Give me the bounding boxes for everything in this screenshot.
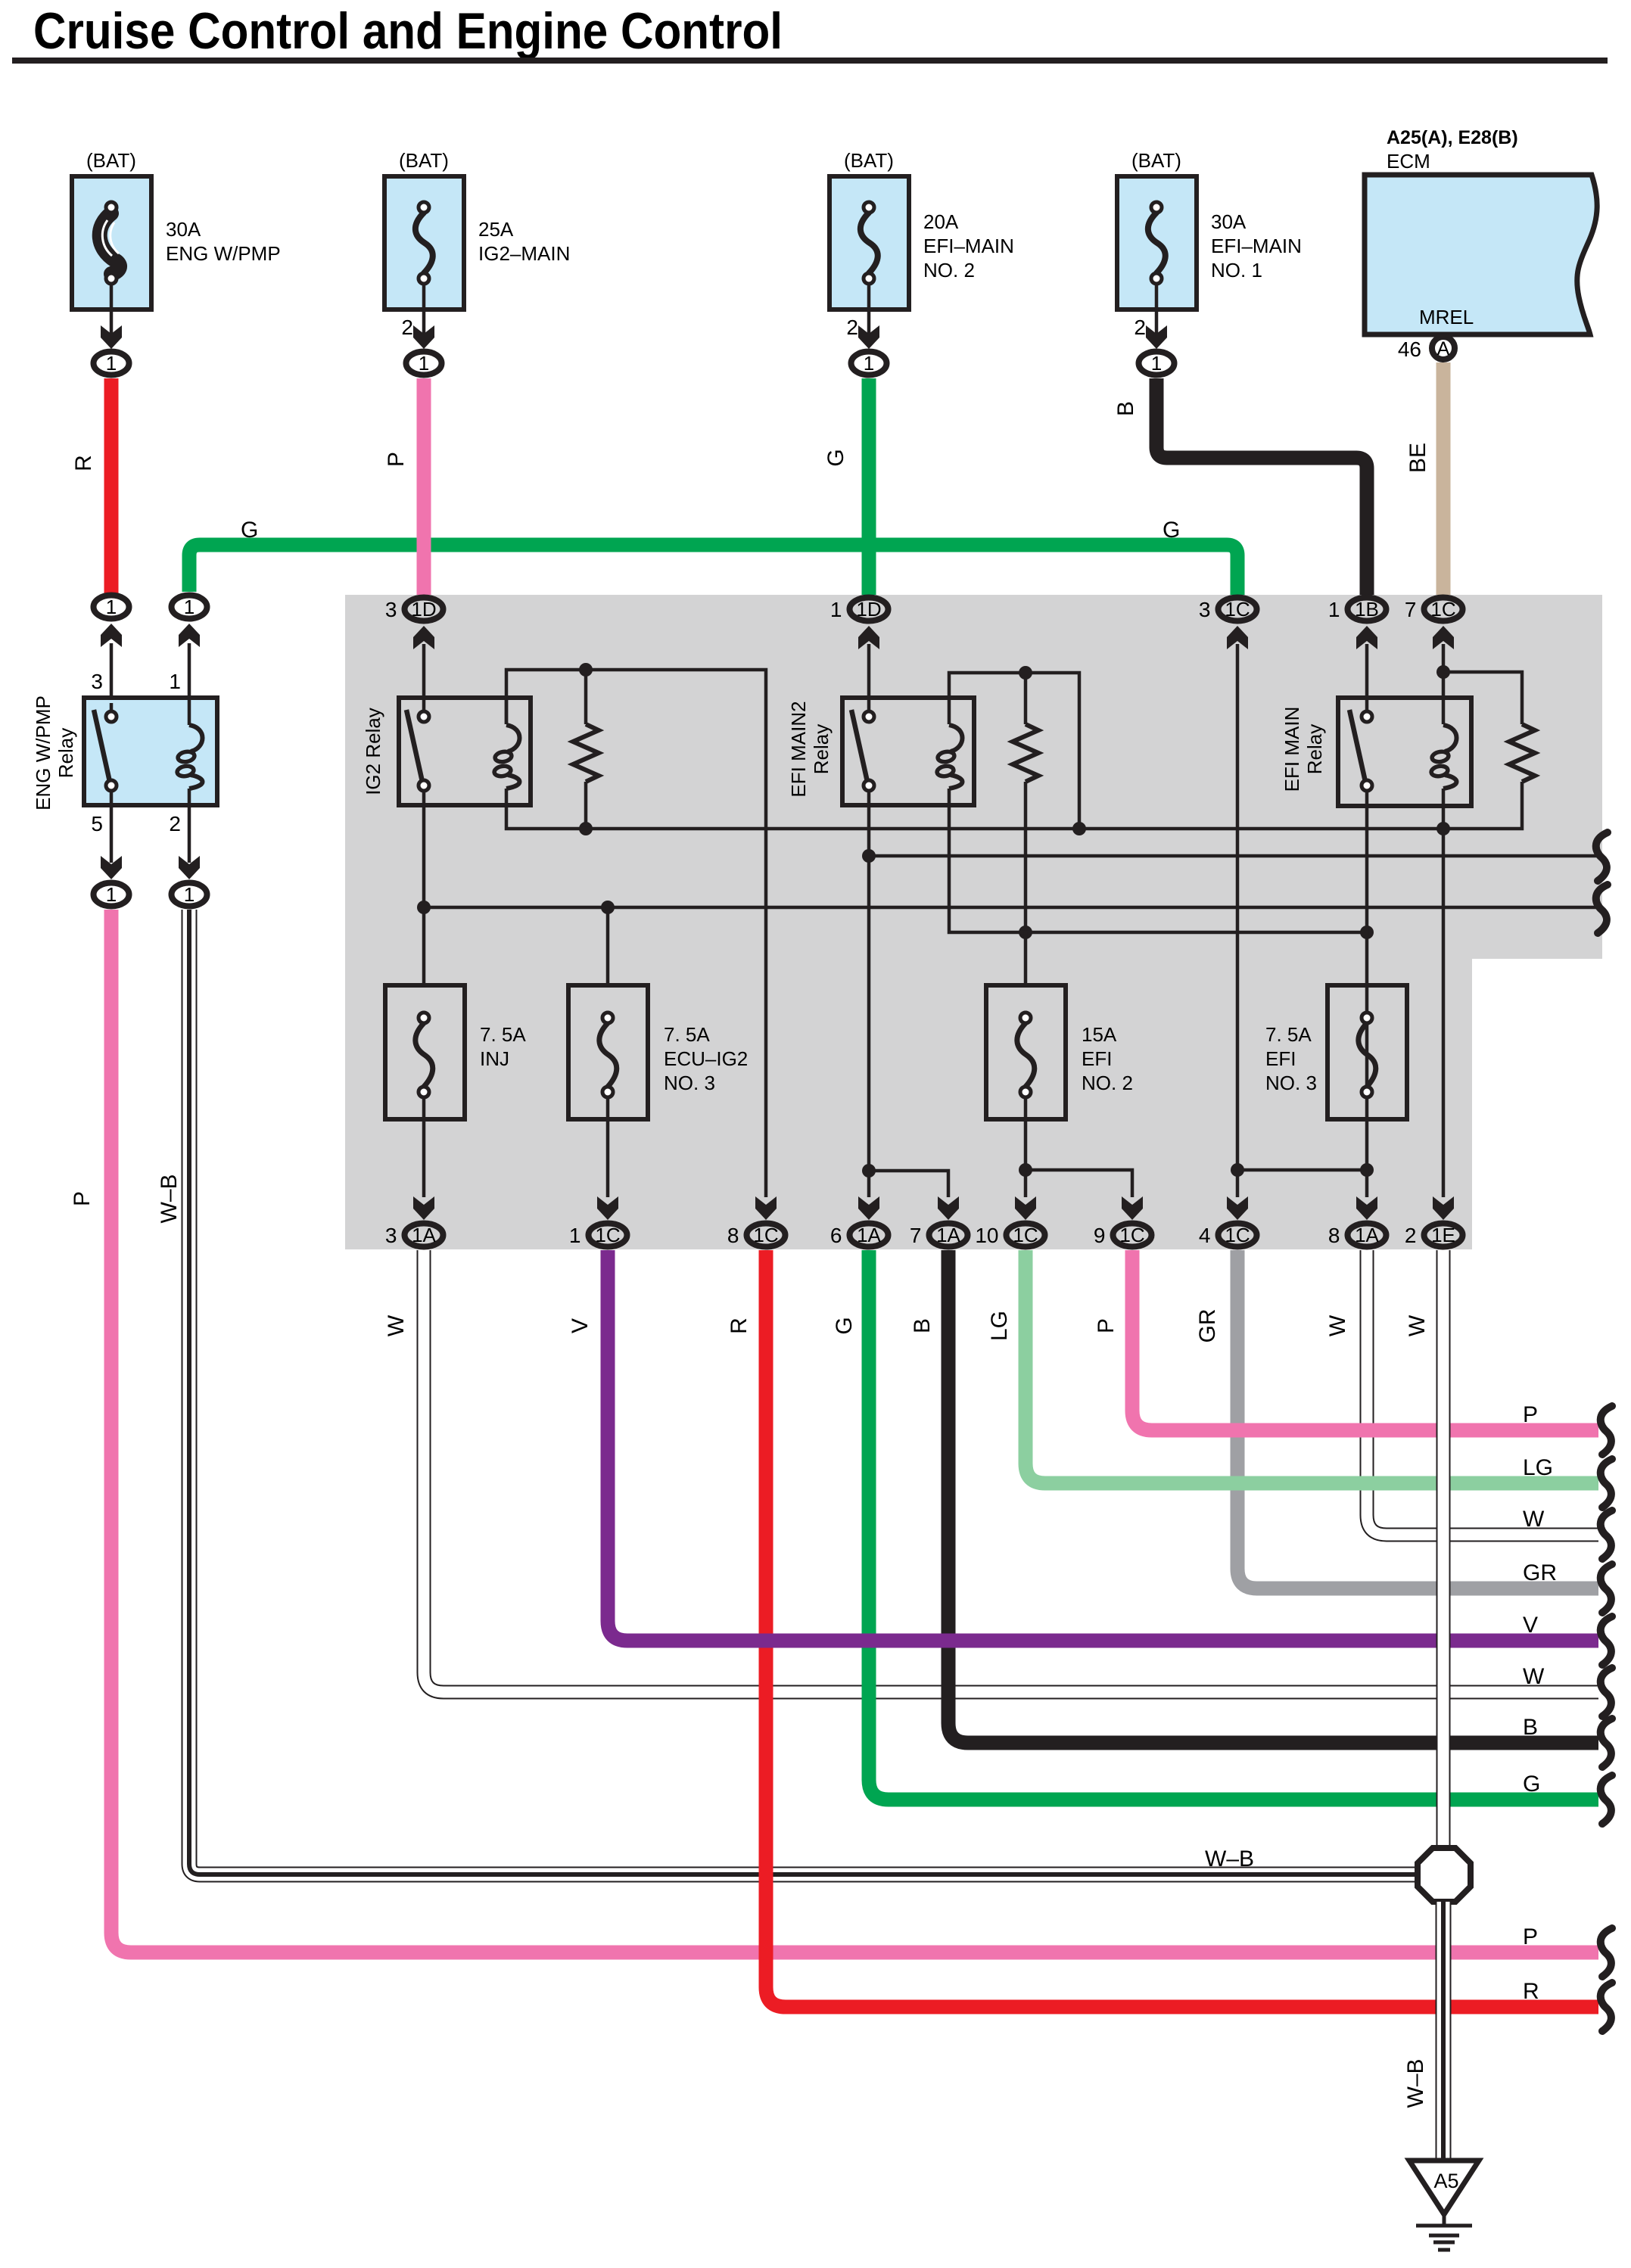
svg-text:1: 1 — [419, 352, 429, 375]
wire EFI MAIN2 switch down to 6 1A — [862, 791, 876, 1197]
svg-text:IG2 Relay: IG2 Relay — [362, 708, 384, 795]
svg-text:1C: 1C — [1225, 598, 1250, 621]
connector 2 1E W out — [1405, 1196, 1463, 1247]
wire 7 1C to EFI MAIN coil — [1436, 644, 1450, 724]
continuation squiggle wire GR — [1601, 1564, 1612, 1613]
svg-text:ENG W/PMP: ENG W/PMP — [32, 695, 54, 810]
continuation squiggle wire G — [1601, 1775, 1612, 1824]
svg-text:1A: 1A — [1355, 1224, 1379, 1246]
svg-text:1A: 1A — [857, 1224, 881, 1246]
wire G green from 6 1A to right edge — [832, 1250, 1598, 1800]
continuation squiggle wire R — [1601, 1983, 1612, 2031]
svg-text:W–B: W–B — [157, 1174, 182, 1223]
svg-text:A5: A5 — [1433, 2170, 1458, 2192]
fuse 25A IG2-MAIN (BAT) — [384, 149, 570, 375]
wire W-B from splice to ground — [1403, 1902, 1443, 2161]
connector 8 1A W out — [1328, 1196, 1387, 1247]
svg-text:LG: LG — [1523, 1455, 1553, 1480]
svg-text:2: 2 — [846, 316, 858, 339]
connector 1 from ENG W/PMP relay pin 5 — [94, 856, 129, 907]
svg-text:1D: 1D — [411, 598, 436, 621]
connector 1 to ENG W/PMP relay pin 3 — [91, 596, 129, 698]
svg-text:R: R — [71, 455, 96, 471]
relay EFI MAIN2 — [787, 698, 974, 805]
connector 1 1C V out — [569, 1196, 627, 1247]
svg-text:1C: 1C — [1013, 1224, 1038, 1246]
svg-text:7: 7 — [1405, 598, 1417, 621]
connector 8 1C R out — [727, 1196, 786, 1247]
svg-text:1B: 1B — [1355, 598, 1379, 621]
svg-text:EFI: EFI — [1082, 1047, 1112, 1070]
svg-text:3: 3 — [385, 1224, 397, 1247]
svg-text:ECU–IG2: ECU–IG2 — [664, 1047, 748, 1070]
relay EFI MAIN — [1281, 698, 1471, 806]
svg-text:W: W — [1523, 1664, 1545, 1689]
continuation squiggle wire V — [1601, 1616, 1612, 1665]
svg-text:1: 1 — [169, 670, 181, 693]
svg-text:G: G — [1523, 1772, 1540, 1797]
wire 1B to EFI MAIN relay switch — [1365, 644, 1369, 711]
svg-text:B: B — [910, 1318, 935, 1333]
continuation squiggle wire W — [1601, 1668, 1612, 1716]
svg-text:P: P — [1094, 1318, 1119, 1333]
svg-text:1: 1 — [1151, 352, 1162, 375]
svg-text:1C: 1C — [1225, 1224, 1250, 1246]
fuse 30A ENG W/PMP (BAT) — [72, 149, 281, 375]
svg-text:8: 8 — [727, 1224, 739, 1247]
svg-text:30A: 30A — [166, 218, 201, 241]
svg-text:EFI: EFI — [1265, 1047, 1296, 1070]
fuse 20A EFI-MAIN NO.2 (BAT) — [830, 149, 1014, 375]
svg-text:G: G — [241, 518, 258, 543]
continuation squiggle wire P — [1601, 1406, 1612, 1454]
svg-text:B: B — [1523, 1715, 1538, 1740]
svg-text:(BAT): (BAT) — [844, 149, 894, 172]
wire bus line y1131 to right edge — [869, 854, 1597, 858]
svg-text:(BAT): (BAT) — [1131, 149, 1181, 172]
fuse 7.5A INJ — [385, 985, 526, 1197]
connector 1 1D EFI MAIN2 relay feed — [830, 598, 889, 650]
title: Cruise Control and Engine Control — [12, 2, 1608, 64]
svg-text:A25(A), E28(B): A25(A), E28(B) — [1387, 127, 1518, 148]
svg-text:1: 1 — [1328, 598, 1340, 621]
ECM pin 46 terminal A (MREL) — [1398, 337, 1455, 361]
svg-text:MREL: MREL — [1419, 306, 1474, 328]
svg-text:G: G — [823, 449, 848, 466]
wire BE beige from ECM MREL — [1405, 362, 1443, 595]
continuation squiggle wire P — [1601, 1928, 1612, 1977]
svg-text:20A: 20A — [923, 210, 959, 233]
svg-text:4: 4 — [1199, 1224, 1211, 1247]
wire EFI MAIN2 coil bottom bus y1232 — [949, 789, 1374, 939]
svg-text:V: V — [568, 1318, 593, 1333]
svg-text:(BAT): (BAT) — [86, 149, 136, 172]
connector 6 1A G out — [830, 1196, 889, 1247]
connector 1 to ENG W/PMP relay pin 1 — [169, 596, 207, 698]
svg-text:1D: 1D — [856, 598, 881, 621]
svg-text:1E: 1E — [1431, 1224, 1455, 1246]
svg-text:2: 2 — [1134, 316, 1146, 339]
wire 3 1C down to 4 1C — [1231, 644, 1244, 1197]
continuation squiggle wire LG — [1601, 1459, 1612, 1507]
svg-text:W: W — [1523, 1507, 1545, 1532]
svg-text:W: W — [384, 1314, 409, 1336]
ECM block A25(A), E28(B) — [1365, 127, 1597, 334]
svg-text:1C: 1C — [753, 1224, 778, 1246]
wire bus line y1199 to right edge — [424, 901, 1597, 914]
svg-text:Relay: Relay — [1303, 724, 1326, 774]
svg-text:A: A — [1437, 338, 1450, 359]
svg-text:P: P — [70, 1191, 95, 1206]
connector 3 1D IG2 relay feed — [385, 598, 444, 650]
svg-text:Relay: Relay — [54, 728, 77, 778]
svg-text:NO. 2: NO. 2 — [923, 259, 975, 282]
svg-text:Cruise Control and Engine Cont: Cruise Control and Engine Control — [33, 2, 783, 60]
wire EFI MAIN switch to EFI NO.3 fuse and 8 1A — [1365, 791, 1369, 1197]
svg-text:2: 2 — [401, 316, 413, 339]
svg-text:1: 1 — [830, 598, 842, 621]
svg-text:W: W — [1325, 1314, 1350, 1336]
svg-text:1A: 1A — [936, 1224, 960, 1246]
relay ENG W/PMP — [32, 695, 217, 863]
svg-text:7. 5A: 7. 5A — [1265, 1023, 1312, 1046]
svg-text:1C: 1C — [1430, 598, 1455, 621]
svg-text:LG: LG — [987, 1311, 1012, 1341]
svg-text:GR: GR — [1523, 1560, 1557, 1585]
svg-text:1: 1 — [106, 596, 117, 618]
wire 1D to EFI MAIN2 relay switch — [867, 644, 871, 711]
svg-text:46: 46 — [1398, 338, 1421, 361]
svg-text:INJ: INJ — [480, 1047, 509, 1070]
svg-text:8: 8 — [1328, 1224, 1340, 1247]
svg-text:ECM: ECM — [1387, 150, 1430, 173]
wire EFI MAIN coil bottom to 2 1E — [1436, 789, 1450, 1197]
wire R red from ENG W/PMP fuse — [71, 378, 111, 593]
wire LG light-green from 10 1C to right edge — [987, 1250, 1598, 1483]
wire B black from EFI-MAIN NO.1 fuse — [1113, 378, 1367, 595]
wire IG2 coil top to connector 8 1C — [506, 670, 766, 1197]
svg-text:W–B: W–B — [1205, 1846, 1254, 1871]
relay IG2 — [362, 698, 531, 805]
svg-text:2: 2 — [169, 812, 181, 835]
fuse 7.5A ECU-IG2 NO.3 — [568, 907, 748, 1197]
svg-text:G: G — [1163, 518, 1180, 543]
splice junction (octagon) — [1418, 1848, 1471, 1902]
svg-text:W: W — [1405, 1314, 1430, 1336]
continuation squiggle line y1131 — [1596, 832, 1608, 881]
svg-text:7. 5A: 7. 5A — [480, 1023, 526, 1046]
svg-text:15A: 15A — [1082, 1023, 1117, 1046]
svg-text:1C: 1C — [595, 1224, 620, 1246]
continuation squiggle wire B — [1601, 1719, 1612, 1767]
wire R red lower part to right edge — [766, 1854, 1598, 2007]
wire IG2 switch to INJ fuse — [417, 791, 431, 985]
resistor across EFI MAIN relay coil — [1443, 672, 1535, 782]
connector 4 1C GR out — [1199, 1196, 1257, 1247]
svg-text:NO. 3: NO. 3 — [664, 1072, 715, 1094]
svg-text:NO. 1: NO. 1 — [1211, 259, 1262, 282]
svg-text:EFI–MAIN: EFI–MAIN — [923, 235, 1014, 257]
svg-text:EFI MAIN: EFI MAIN — [1281, 707, 1303, 792]
fuse 7.5A EFI NO.3 — [1265, 985, 1407, 1119]
svg-text:1: 1 — [184, 883, 195, 906]
wire P pink from 9 1C to right edge — [1094, 1250, 1598, 1430]
svg-text:2: 2 — [1405, 1224, 1417, 1247]
svg-text:1C: 1C — [1119, 1224, 1144, 1246]
svg-text:1: 1 — [184, 596, 195, 618]
svg-text:25A: 25A — [478, 218, 514, 241]
wire V violet from 1 1C to right edge — [568, 1250, 1598, 1641]
connector 9 1C P out — [1094, 1196, 1152, 1247]
svg-text:1: 1 — [569, 1224, 581, 1247]
resistor across EFI MAIN2 relay coil — [1013, 666, 1038, 939]
svg-text:GR: GR — [1195, 1309, 1220, 1343]
svg-text:NO. 3: NO. 3 — [1265, 1072, 1317, 1094]
connector 10 1C LG out — [975, 1196, 1044, 1247]
svg-text:7. 5A: 7. 5A — [664, 1023, 710, 1046]
fuse 30A EFI-MAIN NO.1 (BAT) — [1117, 149, 1302, 375]
svg-text:6: 6 — [830, 1224, 842, 1247]
svg-text:5: 5 — [91, 812, 103, 835]
wire G green from EFI-MAIN NO.2 fuse — [823, 378, 869, 595]
connector 7 1C MREL feed — [1405, 598, 1463, 650]
wire branch to 8 1A — [1237, 1163, 1374, 1177]
svg-text:7: 7 — [910, 1224, 922, 1247]
svg-text:3: 3 — [1199, 598, 1211, 621]
svg-text:1: 1 — [106, 883, 117, 906]
ground A5 — [1409, 2161, 1479, 2250]
wire P pink from IG2-MAIN fuse — [384, 378, 424, 595]
svg-text:NO. 2: NO. 2 — [1082, 1072, 1133, 1094]
svg-text:30A: 30A — [1211, 210, 1247, 233]
svg-text:(BAT): (BAT) — [399, 149, 449, 172]
connector 7 1A B out — [910, 1196, 968, 1247]
wire P pink from relay pin 5 to right edge — [70, 910, 1598, 1952]
svg-text:BE: BE — [1405, 443, 1430, 473]
svg-text:1A: 1A — [412, 1224, 436, 1246]
svg-text:V: V — [1523, 1613, 1538, 1638]
wire W white from 2 1E to splice — [1405, 1250, 1443, 1850]
svg-text:3: 3 — [91, 670, 103, 693]
wire 1D to IG2 relay switch — [422, 644, 426, 711]
svg-text:1: 1 — [106, 352, 117, 375]
wire bus coil-bottom line y1095 — [506, 782, 1522, 829]
svg-text:EFI–MAIN: EFI–MAIN — [1211, 235, 1302, 257]
continuation squiggle wire W — [1601, 1510, 1612, 1559]
wire R red from 8 1C upper part — [727, 1250, 766, 1858]
continuation squiggle line y1199 — [1596, 885, 1608, 933]
svg-text:1: 1 — [864, 352, 874, 375]
fuse 15A EFI NO.2 — [986, 932, 1133, 1197]
svg-text:EFI MAIN2: EFI MAIN2 — [787, 701, 810, 797]
wire GR gray from 4 1C to right edge — [1195, 1250, 1598, 1588]
wire B black from 7 1A to right edge — [910, 1250, 1598, 1743]
wire EFI MAIN2 coil top link — [949, 673, 1086, 835]
wire branch to 7 1A — [869, 1171, 948, 1197]
connector 1 from ENG W/PMP relay pin 2 — [172, 856, 207, 907]
wire W-B from relay pin 2 to splice — [157, 910, 1418, 1874]
wire W white from 3 1A to right edge — [384, 1250, 1598, 1692]
wire G green horizontal bus — [189, 518, 1237, 595]
svg-text:B: B — [1113, 401, 1138, 416]
junction block (gray) — [345, 595, 1602, 1249]
wire W white from 8 1A to right edge — [1325, 1250, 1598, 1535]
svg-text:G: G — [832, 1317, 857, 1334]
svg-text:P: P — [1523, 1402, 1538, 1427]
resistor across IG2 relay coil — [573, 663, 599, 835]
wire branch to 9 1C — [1026, 1170, 1132, 1197]
svg-text:ENG W/PMP: ENG W/PMP — [166, 242, 281, 265]
svg-text:IG2–MAIN: IG2–MAIN — [478, 242, 570, 265]
svg-text:P: P — [384, 452, 409, 467]
svg-text:R: R — [727, 1318, 752, 1334]
svg-text:R: R — [1523, 1979, 1539, 2004]
svg-text:P: P — [1523, 1924, 1538, 1949]
connector 3 1A W out — [385, 1196, 444, 1247]
connector 1 1B EFI MAIN relay feed — [1328, 598, 1387, 650]
svg-text:3: 3 — [385, 598, 397, 621]
svg-text:Relay: Relay — [810, 724, 833, 774]
svg-text:9: 9 — [1094, 1224, 1106, 1247]
svg-text:10: 10 — [975, 1224, 998, 1247]
connector 3 1C green bus feed — [1199, 598, 1257, 650]
svg-text:W–B: W–B — [1403, 2058, 1428, 2108]
